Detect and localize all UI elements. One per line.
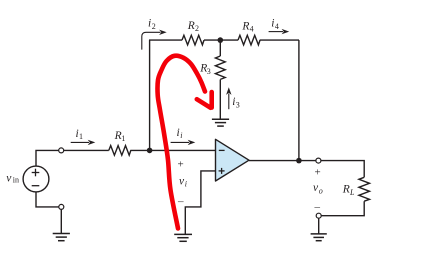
current arrow i3 xyxy=(228,94,230,110)
current arrow i4 xyxy=(269,31,283,33)
terminal circle top-left xyxy=(59,148,64,153)
ground below op-amp plus input xyxy=(174,234,192,241)
wire: top-left vertical feedback line xyxy=(149,40,151,150)
svg-text:–: – xyxy=(314,201,321,213)
svg-text:o: o xyxy=(319,187,323,196)
wire: R3 top stub xyxy=(219,40,221,56)
wire: input rail left of R1 xyxy=(64,149,109,151)
resistor R2 xyxy=(182,35,204,45)
svg-text:3: 3 xyxy=(236,100,240,109)
wire: right vertical from R4 to output node xyxy=(298,40,300,161)
wire: op-amp output to vo terminal xyxy=(249,160,316,162)
red annotation arrow stroke xyxy=(158,56,205,229)
node: junction dot at R2/R4/R3 xyxy=(218,37,224,43)
svg-text:2: 2 xyxy=(152,22,156,31)
op-amp minus sign xyxy=(219,149,225,151)
svg-text:4: 4 xyxy=(275,22,279,31)
wire: top rail left segment xyxy=(149,39,182,41)
svg-text:3: 3 xyxy=(207,67,211,76)
current arrow i2 xyxy=(142,32,161,49)
wire: vin bottom to terminal xyxy=(36,192,59,207)
wire: stub to ground below vin xyxy=(60,209,62,233)
terminal circle bottom-left xyxy=(59,204,64,209)
ground below vin xyxy=(53,234,70,241)
svg-text:L: L xyxy=(349,188,355,197)
wire: top rail middle segment xyxy=(204,39,238,41)
resistor R3 xyxy=(215,56,225,79)
wire: vin top to terminal xyxy=(36,150,59,166)
resistor RL xyxy=(359,177,370,201)
svg-text:1: 1 xyxy=(79,132,83,141)
svg-text:R: R xyxy=(187,20,195,32)
svg-text:i: i xyxy=(180,131,182,140)
node: junction dot output xyxy=(296,158,302,164)
voltage source vin xyxy=(23,166,49,192)
red annotation arrowhead xyxy=(197,92,212,108)
wire: top rail right segment xyxy=(260,39,299,41)
svg-text:+: + xyxy=(178,159,184,171)
svg-text:1: 1 xyxy=(121,134,125,143)
ground below vo xyxy=(311,234,327,241)
svg-text:i: i xyxy=(148,18,151,30)
wire: input rail R1 to op-amp xyxy=(130,149,215,151)
node: junction dot input node xyxy=(147,148,153,154)
current arrow i1 xyxy=(71,141,89,143)
wire: op-amp plus input down to ground xyxy=(185,171,215,235)
ground below R3 xyxy=(212,119,229,126)
wire: R3 bottom stub xyxy=(219,80,221,120)
op-amp U1 xyxy=(216,139,250,181)
op-amp plus sign xyxy=(219,168,225,174)
svg-text:i: i xyxy=(185,179,187,188)
svg-text:2: 2 xyxy=(195,24,199,33)
wire: RL bottom to vo bottom terminal xyxy=(321,201,364,216)
terminal circle vo top xyxy=(316,158,321,163)
svg-text:v: v xyxy=(6,172,12,184)
svg-text:–: – xyxy=(177,196,184,208)
svg-text:4: 4 xyxy=(250,24,254,33)
terminal circle vo bottom xyxy=(316,213,321,218)
resistor R1 xyxy=(109,146,131,156)
wire: vo terminal to RL top xyxy=(321,161,364,178)
svg-text:+: + xyxy=(315,167,321,179)
svg-text:in: in xyxy=(13,176,19,185)
svg-text:R: R xyxy=(241,20,249,32)
resistor R4 xyxy=(238,35,260,45)
current arrow ii xyxy=(171,141,189,143)
wire: stub to ground below vo xyxy=(318,218,320,234)
svg-text:R: R xyxy=(342,184,350,196)
